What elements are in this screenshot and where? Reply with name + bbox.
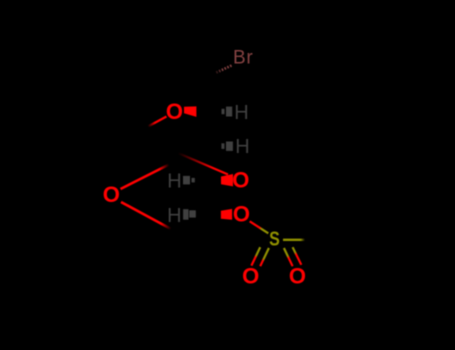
svg-text:O: O <box>233 201 250 226</box>
svg-text:O: O <box>166 99 183 124</box>
svg-text:H: H <box>235 136 249 158</box>
svg-text:H: H <box>167 171 181 193</box>
svg-text:H: H <box>234 102 248 124</box>
svg-text:H: H <box>167 205 181 227</box>
svg-text:O: O <box>232 168 249 193</box>
svg-text:O: O <box>289 263 306 288</box>
svg-text:S: S <box>269 228 280 250</box>
svg-text:O: O <box>242 263 259 288</box>
svg-text:Br: Br <box>233 48 253 69</box>
svg-text:O: O <box>103 182 120 207</box>
